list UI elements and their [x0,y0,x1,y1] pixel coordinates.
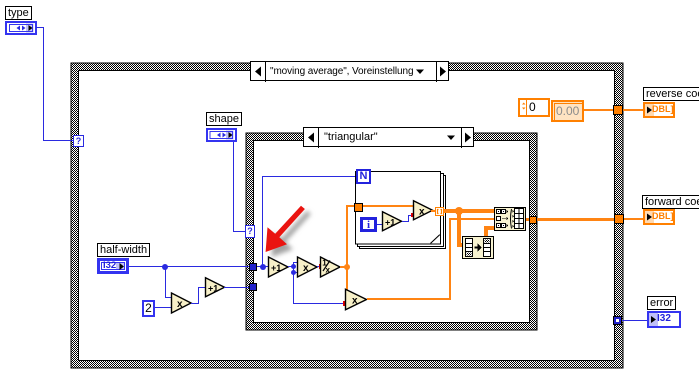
for loop iteration terminal i [360,217,377,232]
svg-text:+1: +1 [271,263,281,273]
numeric control terminal I32 "half-width" [97,258,129,274]
wire tunnel -> reverse coefficients indicator [623,109,643,111]
multiply function (half-width x 2) [170,292,194,315]
wire reciprocal -> junction [340,266,347,268]
numeric constant "2" [142,300,155,317]
svg-text:x: x [303,263,309,274]
for loop count terminal N [356,169,371,184]
outer structure tunnel (forward coefficients) [614,214,624,224]
array constant index "0" [518,98,550,117]
indicator terminal [DBL] "reverse coefficients" [643,102,675,118]
enum control terminal "shape" [206,128,237,142]
indicator label "reverse coefficients" [643,87,699,101]
wire i -> +1 [377,224,383,225]
wire branch down to multiply [165,266,166,298]
annotation red arrow [255,195,315,260]
enum control terminal "type" [5,21,37,35]
multiply function D (center value) [344,288,370,312]
outer case structure interior [78,70,615,361]
wire multiply B -> reciprocal C [317,266,321,267]
increment function (+1) inside loop [381,211,405,233]
wire loop tunnel -> build array (thick array wire) [444,209,494,213]
for loop left tunnel (N input) [354,203,363,212]
inner structure output tunnel (orange) [529,216,537,224]
outer structure tunnel (error, I32) [613,316,622,325]
wire inside loop: tunnel -> multiply [363,205,413,207]
wire reverse array -> build array [484,226,488,236]
wire branch up to N [262,176,263,266]
outer case selector terminal "?" [73,135,84,147]
outer case selector label [250,61,449,81]
orange junction dot [344,264,350,270]
multiply function inside loop [412,200,436,222]
build array function [494,207,526,231]
inner case selector terminal "?" [245,225,255,238]
for loop page-curl corner [428,231,442,246]
wire increment -> lower tunnel [224,287,250,288]
wire junction up to for loop tunnel [346,205,348,266]
increment function (+1) lower left [204,277,228,299]
for loop (stacked frames) [350,165,450,255]
junction dot on half-width wire [162,264,168,270]
wire shape -> inner selector terminal [233,142,234,232]
svg-text:x: x [419,207,425,218]
for loop output tunnel [] [435,207,444,216]
wire multiply -> loop output tunnel [431,210,436,212]
wire outer tunnel -> forward coefficients indicator [624,218,644,220]
numeric control label "half-width" [97,243,150,257]
wire build array -> inner tunnel [526,218,531,221]
indicator terminal I32 "error" [647,311,681,328]
svg-text:x: x [177,299,183,310]
svg-text:+1: +1 [208,284,218,294]
inner case selector label [303,127,474,147]
wire 2 -> multiply [155,307,172,308]
wire type -> outer selector terminal [36,27,44,28]
increment function (+1) chain A [267,256,291,279]
orange array junction dot [455,207,463,215]
enum control label "type" [5,6,32,20]
wire +1 -> multiply B [288,266,294,267]
wire branch down to multiply D [293,272,294,304]
svg-text:x: x [326,266,331,275]
indicator label "forward coefficients" [642,195,699,209]
wire tunnel -> error indicator [622,320,648,321]
svg-text:x: x [352,296,358,307]
inner case structure interior [253,140,530,323]
junction dot inside inner structure [260,264,266,270]
wire inner tunnel -> outer tunnel (array) [537,218,614,221]
multiply function B [296,256,320,279]
wire half-width -> inner tunnel [129,266,250,267]
reverse 1d array function [462,236,494,259]
tunnel (upper, half-width into inner structure) [249,263,257,271]
wire tunnel1 -> +1 chain [257,266,269,267]
outer structure tunnel (reverse coefficients) [613,105,623,115]
coercion dot inside loop [411,213,414,217]
svg-text:+1: +1 [385,218,395,228]
wire junction down to multiply D [346,266,348,295]
reciprocal function 1/x [319,256,343,279]
wire +1 -> multiply inside loop [402,221,409,222]
DBL array constant element "0.00" (empty) [551,100,584,122]
wire multiply -> increment [191,303,199,304]
tunnel (lower, 2*half-width+1 into inner structure) [249,283,257,291]
enum control label "shape" [206,112,242,126]
coercion dot at reciprocal input [319,264,323,269]
wire array constant -> outer tunnel [584,109,614,111]
wire multiply D -> build array (thin) [367,298,451,300]
indicator label "error" [647,296,676,310]
fan-out dots before multiply B [291,264,296,269]
wire junction down to reverse array [457,211,461,247]
coercion dot at multiply D input [343,301,347,306]
indicator terminal [DBL] "forward coefficients" [643,209,675,225]
